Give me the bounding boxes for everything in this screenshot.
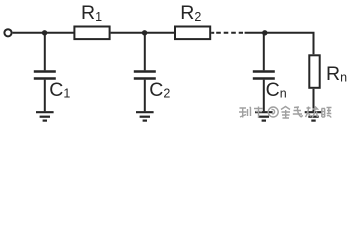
capacitor C2 bbox=[134, 33, 156, 111]
ground Rn bbox=[305, 112, 323, 120]
node junction 3 bbox=[262, 30, 267, 35]
svg-text:Cn: Cn bbox=[266, 79, 287, 101]
label C1 bbox=[49, 79, 70, 101]
svg-text:R1: R1 bbox=[81, 2, 102, 24]
svg-text:C1: C1 bbox=[49, 79, 70, 101]
label Rn bbox=[326, 63, 347, 85]
capacitor C1 bbox=[34, 33, 56, 111]
ground Cn bbox=[255, 112, 273, 120]
svg-text:C2: C2 bbox=[149, 79, 170, 101]
wire Rn to ground bbox=[313, 89, 315, 111]
node junction 1 bbox=[42, 30, 47, 35]
wire dashes to top-right corner bbox=[245, 33, 314, 55]
label C2 bbox=[149, 79, 170, 101]
input terminal node bbox=[4, 29, 11, 36]
resistor Rn bbox=[309, 55, 319, 88]
label Cn bbox=[266, 79, 287, 101]
node junction 2 bbox=[142, 30, 147, 35]
resistor R1 bbox=[74, 27, 109, 40]
capacitor Cn bbox=[253, 33, 275, 111]
svg-text:R2: R2 bbox=[180, 2, 201, 24]
ground C2 bbox=[136, 112, 154, 120]
watermark "知乎 @金毛好暖" (drawn glyph approximation) bbox=[239, 107, 332, 119]
svg-text:Rn: Rn bbox=[326, 63, 347, 85]
wire terminal to R1 bbox=[13, 32, 74, 34]
ground C1 bbox=[36, 112, 54, 120]
label R2 bbox=[180, 2, 201, 24]
resistor R2 bbox=[175, 27, 210, 40]
label R1 bbox=[81, 2, 102, 24]
dashed continuation wire bbox=[216, 32, 243, 34]
wire R1 to R2 bbox=[111, 32, 175, 34]
wire stub after R2 bbox=[211, 32, 214, 34]
